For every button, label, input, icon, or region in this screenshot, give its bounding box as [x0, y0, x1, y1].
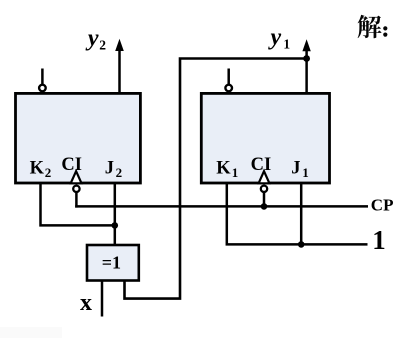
- FF2 preset stub wire: [41, 69, 44, 85]
- wire K2 to J2 net: [41, 184, 115, 225]
- arrowhead y1: [302, 39, 310, 51]
- node junction y1/feedback: [303, 55, 310, 62]
- FF2 clock triangle: [71, 171, 82, 183]
- wire J2 to XOR output: [114, 184, 117, 246]
- svg-text:CP: CP: [371, 196, 394, 215]
- svg-text:CI: CI: [61, 155, 82, 175]
- FF2 clock bubble: [73, 186, 79, 192]
- node junction K2/J2: [112, 222, 119, 229]
- svg-text:1: 1: [372, 225, 386, 255]
- wire FF1 clock to CP: [263, 192, 266, 208]
- wire K1 to logic-1 line: [227, 184, 368, 244]
- arrowhead y2: [115, 39, 124, 51]
- FF1 clock bubble: [261, 186, 267, 192]
- wire feedback y1 to XOR input: [125, 59, 307, 299]
- wire x input: [101, 280, 104, 317]
- wire FF2 clock to CP: [75, 192, 78, 208]
- svg-text:x: x: [80, 290, 92, 316]
- flip-flop FF1 body: [201, 93, 329, 183]
- wire y2 output vertical: [118, 50, 121, 92]
- node junction J1/logic-1: [298, 241, 305, 248]
- wire CP line: [75, 205, 368, 208]
- wire J1 down: [300, 184, 303, 244]
- scan shadow strip bottom-left: [0, 327, 62, 338]
- flip-flop FF2 body: [16, 93, 141, 183]
- wire y1 output vertical: [305, 51, 308, 93]
- svg-text:=1: =1: [102, 252, 121, 272]
- FF1 clock triangle: [259, 171, 270, 183]
- FF2 preset bubble: [39, 85, 46, 92]
- XOR gate body (=1): [87, 245, 139, 281]
- node junction CP/FF1 clock: [261, 203, 268, 210]
- FF1 preset stub wire: [227, 69, 230, 85]
- FF1 preset bubble: [225, 85, 232, 92]
- svg-text:CI: CI: [251, 155, 272, 175]
- label jie (Chinese solution): [358, 15, 382, 38]
- label fullwidth colon: [383, 26, 387, 30]
